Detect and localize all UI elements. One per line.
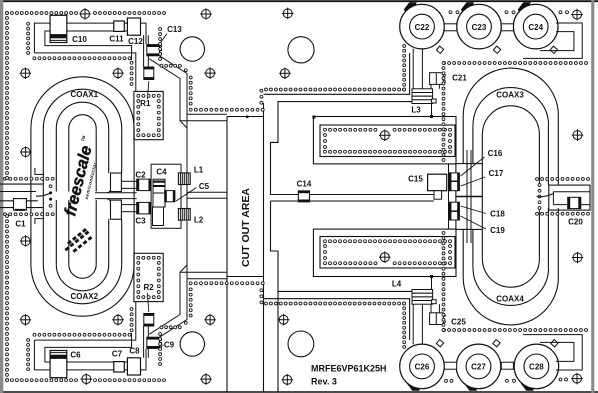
wire C12 to R1 trace [144,35,149,67]
svg-text:COAX1: COAX1 [71,90,99,99]
wire bias trace inner loop (bottom) [45,333,132,362]
svg-text:C20: C20 [568,218,583,227]
wire coax3 left legs [463,116,482,164]
capacitor C11 [114,21,125,31]
svg-text:R2: R2 [143,283,154,292]
capacitor C28 [514,344,559,389]
label C4 [156,168,167,177]
wire coax4 right legs [539,208,558,277]
wire C28 stub loop inner [540,342,574,361]
wire output-side bias trace outer loop (bottom) [34,340,146,370]
capacitor C20 [568,197,581,208]
capacitor C22 wedge [404,2,417,13]
via pair right of C23 [505,11,515,14]
tooling crosshair (25.6,241) [20,235,32,247]
svg-text:C24: C24 [528,23,543,32]
via pair right of C26 [445,379,453,382]
svg-text:L1: L1 [194,166,204,175]
resistor R1 [144,67,154,80]
hole top-left [180,37,204,61]
capacitor C15 lower pad [434,191,442,200]
tooling crosshair (283.6,319.7) [278,314,290,326]
via pair right of C22 [449,11,459,14]
wire coax leg x43.3 [42,128,44,264]
svg-text:C1: C1 [15,220,26,229]
via row right-section bottom [265,302,406,305]
tooling crosshair (210.1,73.1) [204,67,216,79]
logo freescale chevron mark [65,228,93,253]
wire coax leg x108.7 lower [108,219,110,264]
label C12 [128,37,143,46]
outline drain region lower [313,229,456,276]
via row coax4 region [443,329,588,332]
via dots right of C1 [49,185,52,207]
wire C25 to L4 [431,304,439,313]
wire L3 to drain [431,104,433,117]
via row coax3 region [443,62,588,65]
label C5 [176,182,210,201]
wire C21 to L3 [431,84,439,88]
via pair right of C24 [559,11,568,14]
via row bottom-left [6,379,166,382]
wire coax leg x68.8 upper [68,128,70,191]
wire gate trace outer (top) [160,56,228,114]
svg-text:C28: C28 [529,363,544,372]
label L1 [194,166,204,175]
capacitor C15 [428,174,447,191]
wire coax leg x134.1 [133,128,135,264]
label R1 [140,81,151,108]
tooling crosshair (577.5,257.5) [572,252,584,264]
wire coax4 left legs [463,229,482,277]
svg-text:C4: C4 [156,168,167,177]
wire C26 drain feed [413,304,422,344]
wire right-section inner bottom edge [271,201,413,392]
pad bridge C26-C27 [444,362,456,369]
svg-text:C22: C22 [415,23,430,32]
label C6 [70,351,81,360]
capacitor C24 wedge [518,2,531,13]
via chain inner bottom [27,308,133,371]
capacitor C3 [137,202,151,214]
capacitor C27 [456,344,501,389]
via fence drain lower [320,237,455,269]
label C28 [529,363,544,372]
via pair right of C27 [506,379,516,382]
label C26 [415,363,430,372]
node C1 junction dots [49,191,52,200]
wire C22 drain feed [413,49,422,89]
logo freescale wordmark [61,134,103,219]
via chain gate region bottom [159,282,264,366]
capacitor C14 [298,191,309,202]
label L4 [392,280,402,289]
capacitor C23 [457,4,502,49]
wire cutout strip top [227,116,264,118]
label R2 [143,283,154,312]
capacitor C27 wedge [464,380,477,391]
capacitor C18 [449,202,459,211]
tooling crosshair (577.5,135.1) [572,129,584,141]
label C3 [135,217,146,226]
wire gate trace inner (top) [149,59,227,121]
svg-text:C2: C2 [135,171,146,180]
via row below C1 [4,213,55,216]
via chain gate region top [159,28,264,112]
hole bottom-center [288,331,314,357]
tooling crosshair (85,13.9) [79,8,91,20]
svg-text:L3: L3 [411,106,421,115]
capacitor C23 wedge [461,2,474,13]
wire input bias trace outer loop [34,23,146,53]
label C14 [297,180,312,189]
wire C2 stub [121,181,136,188]
svg-text:C5: C5 [199,182,210,191]
svg-text:MRFE6VP61K25H: MRFE6VP61K25H [311,364,387,374]
via fence drain upper [320,125,455,157]
via pair right of C28 [559,378,567,381]
wire L4 to drain [431,277,433,290]
capacitor C21 [430,73,446,85]
connector C1 body lines [0,184,43,208]
inductor L1 [178,173,190,185]
label C27 [471,363,486,372]
label C20 [568,218,583,227]
wire coax leg x56.3 upper [55,128,57,191]
wire left-section right edge [226,117,228,393]
svg-text:C13: C13 [167,25,182,34]
pad transistor gate upper [456,164,482,197]
node junction on cutout top line [246,116,249,119]
via col right-section bottom [403,302,406,348]
capacitor C13 [147,45,162,56]
wire gate trace inner (bottom) [149,272,227,334]
capacitor C27 tab [493,340,500,347]
svg-text:C14: C14 [297,180,312,189]
wire right-section bottom edge [264,299,410,340]
capacitor C16 [449,173,459,181]
wire gate trace right section [271,195,435,202]
wire C24 stub loop inner [540,32,574,51]
wire pad fillet curves [107,190,111,202]
wire coax leg x56.3 lower [55,200,57,265]
label C8 [129,347,140,356]
capacitor C4 [153,179,165,193]
capacitor C23 tab [493,46,500,53]
tooling crosshair (577,14.6) [571,9,583,21]
capacitor C24 tab [550,46,557,53]
label C15 [408,175,423,184]
svg-text:C12: C12 [128,37,143,46]
via row right-section top [265,88,406,91]
wire gate trace outer (bottom) [160,279,228,337]
capacitor C6 [50,351,67,378]
wire transistor flange lines [467,150,471,243]
label C21 [452,74,467,83]
label C10 [72,35,87,44]
via fence box at R2 [134,253,163,301]
wire coax leg x96.2 lower [95,200,97,265]
tooling crosshair (577,378.6) [571,373,583,385]
label C16 [461,149,503,176]
hole bottom-left [180,332,204,356]
label COAX3 [496,91,524,100]
svg-text:Rev. 3: Rev. 3 [311,377,337,387]
label C18 [461,206,506,219]
svg-text:C8: C8 [129,347,140,356]
svg-text:C23: C23 [472,23,487,32]
svg-text:C11: C11 [109,34,124,43]
wire cutout strip right edge [263,103,265,392]
via col coax3 region [442,62,445,162]
wire coax leg x96.2 upper [95,128,97,191]
svg-text:C6: C6 [70,351,81,360]
tooling crosshair (118,73.2) [112,67,124,79]
capacitor C9 [147,337,162,348]
capacitor C10 [50,15,67,42]
pad bridge C23-C24 [501,24,513,31]
node junction L3 drain corner [430,115,433,118]
label C11 [109,34,124,43]
resistor R2 [144,314,154,327]
crosshair in drain lower [379,251,391,263]
svg-text:C15: C15 [408,175,423,184]
capacitor C4 mid [153,193,165,207]
wire gate feed trace [95,193,137,199]
capacitor C28 wedge [521,380,534,391]
hole top-center [288,37,314,63]
outline drain region upper [313,117,456,164]
label L2 [194,216,204,225]
label Rev. 3 [311,377,337,387]
coax transformer COAX2 arcs [31,265,134,317]
svg-text:CUT OUT AREA: CUT OUT AREA [240,188,252,267]
wire right-section inner top edge [271,102,413,195]
pad coax right leg lower [111,200,122,219]
svg-text:COAX3: COAX3 [496,91,524,100]
capacitor C26 wedge [407,380,420,391]
wire coax leg x121.7 lower [121,219,123,264]
pad C20 outline [549,185,590,210]
label C2 [135,171,146,180]
label C9 [160,341,175,350]
capacitor C19 [449,211,459,220]
svg-text:C16: C16 [488,149,503,158]
svg-text:L2: L2 [194,216,204,225]
via col coax4 region [442,232,445,332]
wire C20 feed curve [537,194,554,197]
tooling crosshair (25.4,73.2) [20,67,32,79]
capacitor C22 tab [436,46,443,53]
via chain inner top [27,22,133,85]
node junction drain rect corner [312,116,315,119]
wire gate stub to cutout [187,192,227,198]
wire coax leg x68.8 lower [68,200,70,265]
wire C24 stub loop outer [523,23,582,58]
capacitor C17 [449,182,459,191]
tooling crosshair (287.7,13.4) [282,8,294,20]
node junction L4 drain corner [430,275,433,278]
tooling crosshair (206,14) [200,8,212,20]
pad coax right leg upper [111,173,122,192]
capacitor C12 [127,18,140,35]
wire C28 stub loop outer [523,335,582,370]
pad bridge C22-C23 [444,24,456,31]
svg-text:COAX4: COAX4 [496,295,524,304]
capacitor C22 [400,4,445,49]
label COAX1 [71,90,99,99]
wire top border [0,0,598,2]
wire bottom border [0,391,598,393]
via column left outer [6,12,9,382]
wire coax leg x121.7 upper [121,128,123,173]
wire L2 branch diagonal (bottom) [180,265,187,272]
svg-text:COAX2: COAX2 [71,292,99,301]
outline C4 matching box [151,164,181,228]
tooling crosshair (206,379.1) [200,373,212,385]
capacitor C24 [513,4,558,49]
connector C1 outline steps [35,168,44,224]
svg-text:L4: L4 [392,280,402,289]
wire right border bar [591,0,594,393]
svg-text:C7: C7 [112,350,123,359]
label L3 [411,106,421,115]
coax transformer COAX1 arcs [31,77,134,129]
wire L1 branch diagonal [180,121,187,128]
svg-text:C17: C17 [489,169,504,178]
wire vertical branch to L1/L2 [186,74,188,320]
capacitor C2 [137,179,151,191]
coax transformer COAX3 arcs [463,68,558,134]
label C1 [15,220,26,229]
capacitor C28 tab [551,340,558,347]
via row top-left [6,12,166,15]
inductor L2 [178,209,190,221]
capacitor C26 tab [436,340,443,347]
label COAX4 [496,295,524,304]
wire C20 inner lines [553,192,590,205]
via row C20 top [536,178,590,181]
tooling crosshair (210.1,319.8) [204,314,216,326]
wire left border bar [0,0,3,393]
capacitor C25 [430,313,446,325]
wire coax leg x108.7 upper [108,128,110,173]
capacitor C26 [400,344,445,389]
wire coax leg x30.9 [30,128,32,264]
svg-text:C26: C26 [415,363,430,372]
wire cutout strip lower crossing [227,276,264,278]
label C25 [451,318,466,327]
via row above C1 [4,177,55,180]
wire input bias trace outer bottom [34,53,135,92]
svg-text:C18: C18 [490,210,505,219]
wire C8 to R2 trace [144,326,149,358]
svg-text:C25: C25 [451,318,466,327]
label C7 [112,350,123,359]
tooling crosshair (287.3,379.8) [282,374,294,386]
crosshair in drain upper [379,130,391,142]
via col C20 left [538,184,541,210]
svg-text:R1: R1 [140,99,151,108]
inductor L4 [412,290,436,305]
wire C3 stub [121,205,136,212]
connector C1 pin box [14,199,27,211]
svg-text:C21: C21 [452,74,467,83]
tooling crosshair (86.3,379.1) [81,373,93,385]
label C22 [415,23,430,32]
svg-text:C9: C9 [164,341,175,350]
tooling crosshair (284.9,73.3) [279,68,291,80]
wire C1 pin wire [36,193,51,196]
svg-text:C19: C19 [490,226,505,235]
pad bridge C27-C28 [501,362,513,369]
wire bias trace outer bottom (bottom) [34,302,135,341]
label COAX2 [71,292,99,301]
label MRFE6VP61K25H [311,364,387,374]
wire coax3 right legs [539,116,558,185]
svg-text:C10: C10 [72,35,87,44]
via fence box at R1 [134,91,163,139]
wire input bias trace inner loop [45,31,132,60]
wire right-section top edge [264,53,410,94]
coax transformer COAX4 arcs [463,259,558,325]
tooling crosshair (25.4,319.8) [20,314,32,326]
capacitor C4 body [153,207,164,226]
capacitor C7 [114,362,125,372]
capacitor C8 [127,358,140,375]
label C24 [528,23,543,32]
label C19 [461,216,506,235]
label C13 [159,25,183,46]
label C17 [461,169,504,186]
wire pad left bar [447,164,456,229]
tooling crosshair (25.6,152) [20,146,32,158]
label CUT OUT AREA [240,188,252,267]
svg-text:C3: C3 [135,217,146,226]
via col right-section top [403,45,406,91]
label C23 [472,23,487,32]
tooling crosshair (118,319.8) [112,314,124,326]
via row C20 bottom [536,212,590,215]
svg-text:C27: C27 [471,363,486,372]
pad transistor gate lower [456,196,482,229]
capacitor C5 [165,191,175,202]
inductor L3 [412,89,436,104]
